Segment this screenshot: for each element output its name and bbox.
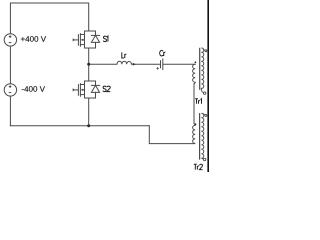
wire right edge (207, 0, 209, 172)
wire inductor to capacitor (132, 63, 161, 65)
wire bottom rail (10, 125, 149, 127)
label -400 V (22, 86, 45, 92)
mosfet S1 (73, 31, 100, 48)
label +400 V (21, 36, 46, 42)
wire S2 source down (88, 98, 90, 126)
wire left rail between sources (9, 46, 11, 84)
Lr current arrow (133, 63, 136, 66)
transformer Tr1 secondary (201, 48, 203, 91)
node bottom junction (87, 124, 90, 127)
S2 body arrow (81, 89, 84, 91)
inductor Lr (117, 61, 132, 64)
wire mid rail to inductor (89, 63, 117, 65)
voltage source V1 (4, 34, 16, 46)
S1 body arrow (81, 39, 84, 41)
transformer Tr1 core (199, 48, 201, 90)
node midpoint junction (87, 63, 90, 66)
Tr2 secondary bottom terminal (201, 157, 203, 160)
label Tr2 (194, 164, 203, 169)
label Cr (160, 50, 166, 56)
label S2 (103, 86, 110, 92)
voltage source V2 (4, 84, 16, 96)
transformer Tr1 primary (193, 64, 196, 124)
wire left rail lower (9, 96, 11, 126)
wire midpoint to S2 drain (88, 64, 90, 81)
Tr2 primary dot (195, 123, 197, 125)
capacitor Cr (157, 58, 163, 70)
Tr2 secondary top terminal (203, 113, 205, 115)
Tr1 secondary bottom terminal (201, 90, 203, 92)
mosfet S2 (73, 81, 100, 98)
transformer Tr2 core (199, 113, 201, 160)
transformer Tr2 primary (193, 124, 196, 144)
Tr1 secondary top terminal (203, 49, 205, 51)
wire top rail (10, 3, 88, 34)
wire capacitor to Tr1 (163, 63, 195, 65)
label Tr1 (195, 99, 201, 104)
label Lr (122, 52, 127, 58)
label S1 (103, 36, 108, 42)
wire S1 source to midpoint (88, 48, 90, 64)
transformer Tr2 secondary (201, 113, 203, 158)
wire step to Tr2 (149, 126, 194, 144)
Tr1 primary dot (195, 61, 197, 63)
